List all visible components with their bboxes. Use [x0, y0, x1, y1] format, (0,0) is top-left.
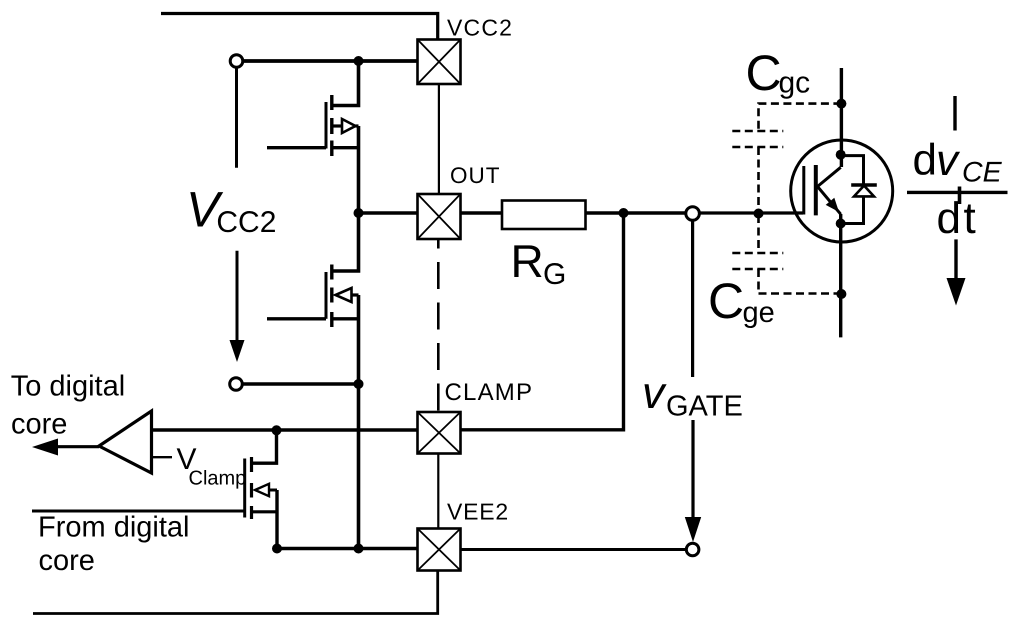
wire NMOS gate stub [267, 317, 326, 320]
capacitor Cgc dashed [732, 104, 841, 214]
wire OUT pad to resistor [461, 211, 503, 214]
wire comparator output [58, 445, 99, 448]
svg-text:Clamp: Clamp [189, 468, 247, 490]
wire PMOS gate stub [267, 146, 326, 149]
wire vGATE measure upper [691, 221, 694, 378]
svg-text:CC2: CC2 [216, 206, 276, 239]
wire VEE2 pad bottom return [33, 571, 438, 614]
arrowhead IGBT emitter [826, 198, 839, 212]
terminal circle gate [686, 207, 700, 221]
pad CLAMP [418, 412, 461, 454]
wire from digital core gate lead [32, 510, 245, 513]
junction dot gate capacitor node [754, 209, 764, 219]
svg-text:GATE: GATE [666, 391, 743, 423]
junction dot Cgc collector [836, 99, 846, 109]
svg-text:core: core [39, 545, 95, 577]
svg-text:VEE2: VEE2 [447, 499, 509, 525]
wire VCC2 measure line lower [236, 251, 239, 341]
junction dot RG output node [619, 208, 629, 218]
wire dvdt upper tick [953, 96, 956, 131]
diode freewheeling [841, 156, 877, 224]
svg-text:dt: dt [937, 194, 979, 243]
arrowhead vGATE [685, 517, 701, 542]
wire VEE2 pad to gate return terminal [461, 548, 687, 551]
dashed link OUT pad to CLAMP pad [437, 239, 440, 413]
svg-text:d: d [913, 136, 937, 185]
wire OUT node to pad [359, 211, 418, 214]
wire RG node down to CLAMP pad [461, 213, 624, 430]
junction dot OUT node [354, 208, 364, 218]
svg-text:CE: CE [962, 157, 1003, 189]
svg-text:CLAMP: CLAMP [445, 379, 534, 406]
wire VCC2 terminal to pad [243, 59, 417, 63]
svg-text:ge: ge [743, 297, 775, 329]
svg-text:core: core [11, 409, 67, 441]
junction dot IGBT emitter node [836, 219, 846, 229]
svg-text:C: C [708, 273, 744, 329]
wire NMOS source down to VEE2 rail [357, 295, 361, 549]
terminal circle emitter return [686, 543, 699, 556]
wire resistor to gate terminal [586, 211, 686, 214]
wire VEE2 rail [277, 547, 418, 550]
junction dot Cge emitter [836, 289, 846, 299]
transistor M1 PMOS pull-up [326, 95, 359, 156]
junction dot clamp source [272, 544, 282, 554]
junction dot rail VEE2 [354, 544, 364, 554]
op-amp comparator triangle [99, 411, 152, 473]
svg-text:v: v [642, 367, 667, 418]
wire CLAMP pad to VEE2 pad [437, 454, 439, 529]
IGBT collector line [840, 68, 843, 167]
capacitor Cge dashed [732, 215, 841, 294]
wire VCC2 node down to PMOS drain [332, 61, 359, 106]
junction dot clamp sense node [272, 425, 282, 435]
junction dot NMOS source node [354, 379, 364, 389]
svg-text:v: v [936, 136, 961, 185]
wire terminal to NMOS source node [243, 382, 359, 385]
wire comparator input to CLAMP pad [152, 428, 418, 431]
svg-text:To digital: To digital [11, 371, 125, 403]
svg-text:G: G [543, 258, 566, 291]
pad VCC2 [418, 40, 461, 85]
IGBT Q1 body [791, 140, 893, 242]
wire VCC2 pad to OUT pad [438, 84, 440, 194]
resistor RG [502, 201, 586, 230]
transistor M3 clamp NMOS [252, 430, 277, 463]
svg-text:gc: gc [779, 67, 811, 100]
pad OUT [418, 194, 461, 239]
junction dot IGBT collector node [836, 150, 846, 160]
arrowhead VCC2 measure [230, 340, 245, 362]
junction dot VCC2 node [354, 56, 364, 66]
svg-text:R: R [511, 235, 544, 287]
wire vGATE measure lower [691, 420, 694, 519]
IGBT emitter line [839, 214, 842, 337]
wire VClamp reference stub [152, 456, 173, 458]
svg-text:From digital: From digital [38, 511, 190, 543]
wire PMOS source down to OUT node [357, 126, 361, 213]
terminal circle VCC2 supply [230, 55, 243, 68]
fraction bar [907, 191, 1008, 194]
svg-text:OUT: OUT [450, 163, 501, 188]
wire clamp NMOS source to rail [275, 490, 278, 549]
t ascender through fraction bar [958, 187, 962, 205]
wire top rail to VCC2 pad [161, 14, 438, 40]
svg-text:C: C [746, 45, 782, 101]
wire dvdt arrow shaft [954, 239, 957, 279]
arrowhead to digital core [32, 439, 58, 456]
svg-text:VCC2: VCC2 [447, 15, 513, 41]
arrowhead dvdt [947, 278, 966, 306]
pad VEE2 [418, 529, 461, 571]
wire gate terminal to IGBT gate [700, 211, 803, 214]
terminal circle VEE2-side [230, 378, 243, 391]
wire VCC2 measure line upper [235, 67, 238, 168]
transistor M2 NMOS pull-down [332, 213, 359, 271]
